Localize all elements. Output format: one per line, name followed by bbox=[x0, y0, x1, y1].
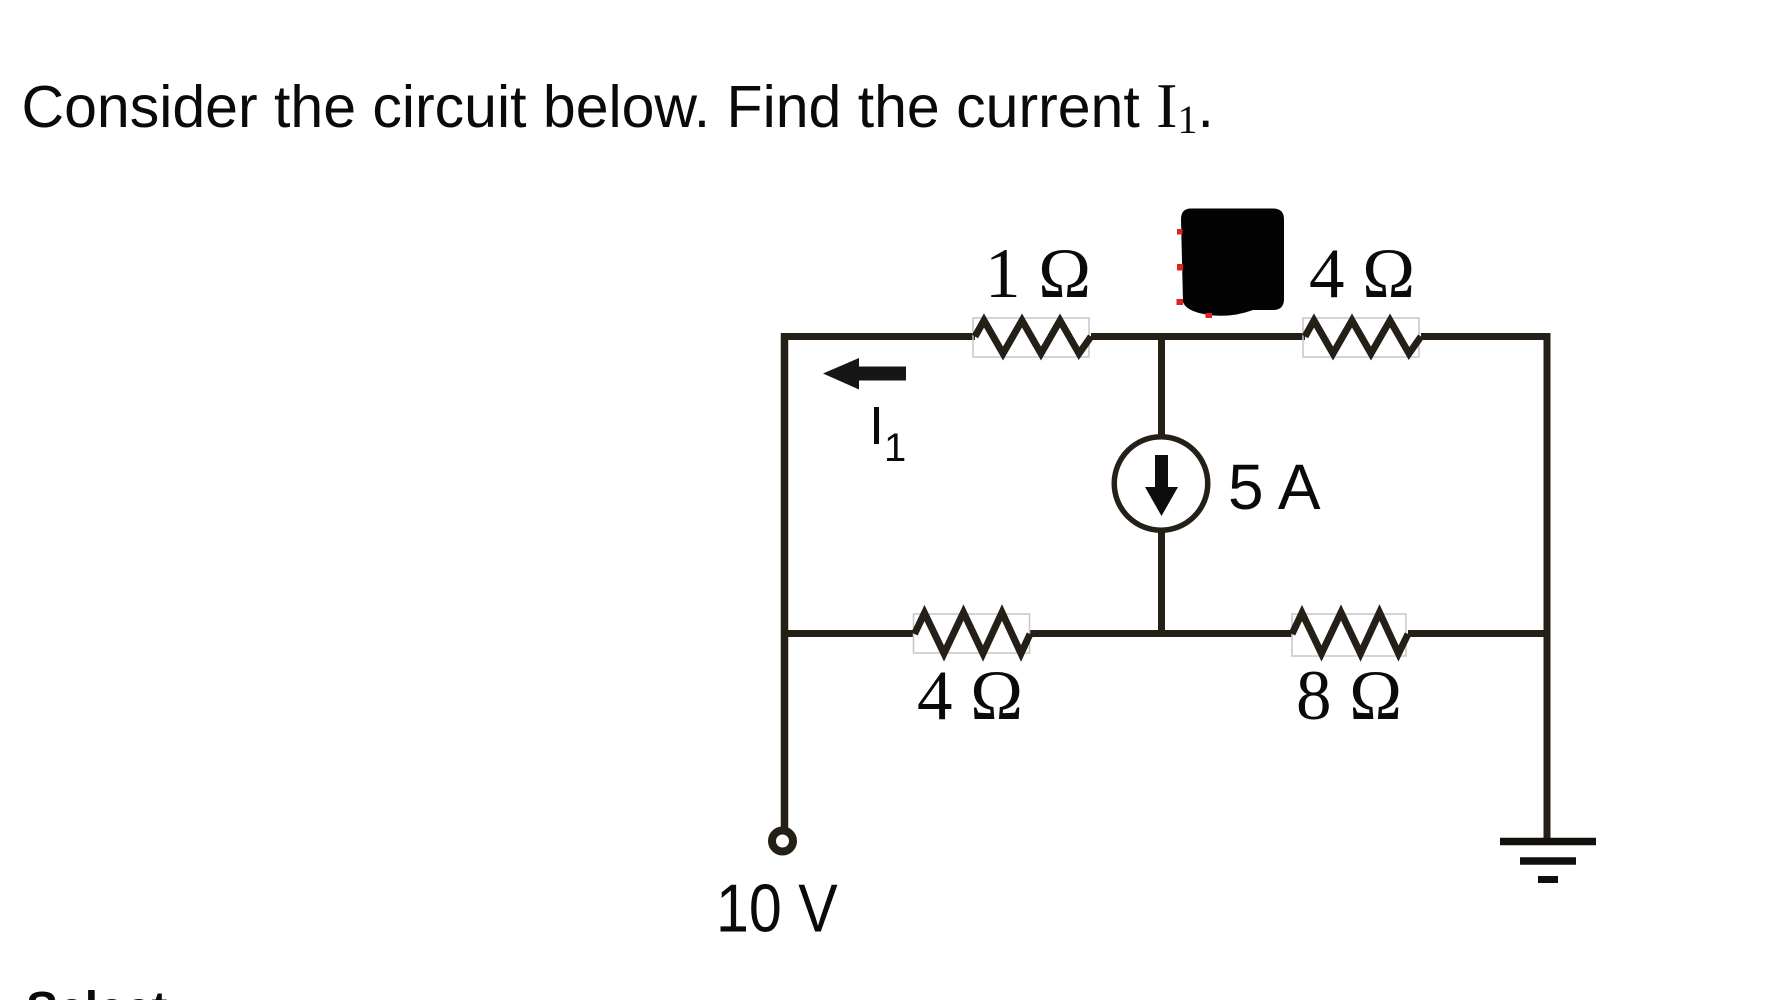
svg-text:4 Ω: 4 Ω bbox=[1309, 235, 1415, 313]
svg-text:5 A: 5 A bbox=[1228, 451, 1321, 523]
svg-text:4 Ω: 4 Ω bbox=[917, 657, 1023, 735]
red tick marks on redaction box bbox=[1177, 229, 1213, 318]
wire bottom-left segment bbox=[785, 630, 915, 637]
svg-text:10 V: 10 V bbox=[716, 870, 838, 947]
wire left vertical bbox=[781, 333, 789, 828]
wire bottom-middle segment bbox=[1030, 630, 1292, 637]
resistor R4 zigzag 8 ohm bbox=[1292, 613, 1408, 654]
wire top-right segment bbox=[1421, 333, 1547, 340]
svg-text:1 Ω: 1 Ω bbox=[985, 235, 1091, 313]
wire middle vertical upper bbox=[1158, 337, 1165, 438]
wire top-middle segment bbox=[1091, 333, 1305, 340]
current source I-src circle bbox=[1114, 437, 1208, 531]
ground symbol bbox=[1500, 842, 1596, 880]
resistor box R1 (1 ohm) bbox=[973, 318, 1089, 357]
svg-text:Consider the circuit below. Fi: Consider the circuit below. Find the cur… bbox=[22, 70, 1214, 142]
resistor box R4 (8 ohm) bbox=[1292, 614, 1406, 656]
redaction black box bbox=[1181, 209, 1284, 316]
resistor box R2 (4 ohm top) bbox=[1303, 318, 1419, 357]
wire right vertical bbox=[1544, 333, 1551, 841]
resistor box R3 (4 ohm bottom) bbox=[914, 614, 1030, 653]
wire bottom-right segment bbox=[1408, 630, 1547, 637]
resistor R3 zigzag 4 ohm bottom bbox=[915, 613, 1031, 654]
wire middle vertical lower bbox=[1158, 531, 1165, 634]
svg-text:Select: Select bbox=[26, 983, 167, 1000]
resistor R1 zigzag 1 ohm bbox=[975, 321, 1091, 354]
arrow I1 current direction bbox=[823, 358, 906, 390]
resistor R2 zigzag 4 ohm top bbox=[1305, 321, 1421, 354]
current source arrow bbox=[1145, 455, 1178, 516]
svg-text:8 Ω: 8 Ω bbox=[1296, 657, 1402, 735]
terminal node (10 V) open circle bbox=[772, 831, 793, 852]
svg-text:I1: I1 bbox=[869, 396, 906, 470]
wire top-left segment bbox=[785, 333, 976, 340]
